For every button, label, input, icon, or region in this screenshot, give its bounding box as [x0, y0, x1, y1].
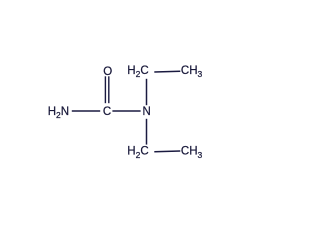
svg-text:O: O	[103, 66, 112, 78]
wire bond H2C-CH3 lower	[154, 150, 180, 153]
chemical structure: N,N-diethylurea	[0, 0, 255, 227]
wire double bond C=O left line	[104, 76, 106, 103]
wire bond H2C-CH3 upper	[154, 70, 180, 73]
wire bond N-CH2 lower	[146, 119, 148, 145]
svg-text:C: C	[103, 106, 111, 118]
wire double bond C=O right line	[108, 76, 110, 103]
wire bond H2N-C	[72, 110, 100, 112]
wire bond N-CH2 upper	[146, 79, 148, 105]
wire bond C-N	[112, 110, 140, 112]
svg-text:N: N	[143, 106, 151, 118]
